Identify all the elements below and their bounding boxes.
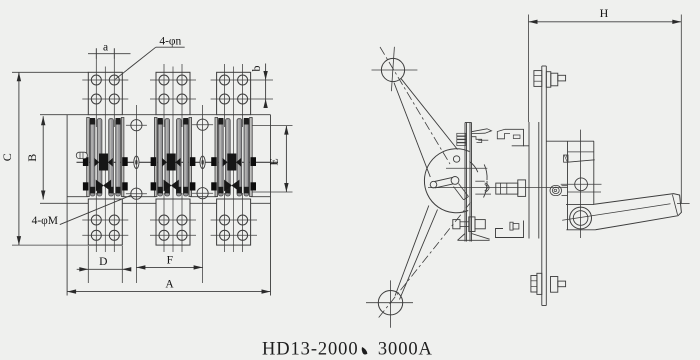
crank pin [430, 181, 437, 188]
lower angle bracket [496, 221, 524, 238]
pole 1 blade bottom feet [90, 187, 121, 194]
mounting hole centerline 2 [202, 105, 204, 283]
svg-text:3000A: 3000A [378, 340, 433, 360]
handle up side lines [394, 79, 458, 177]
latch tab on pole 1 [76, 152, 87, 158]
svg-text:HD13-2000: HD13-2000 [262, 340, 358, 360]
base top edge line [40, 114, 271, 116]
pole 3 blade bottom feet [218, 187, 249, 194]
mounting channel flanges [529, 122, 539, 239]
base lower rail line [40, 202, 271, 204]
pole 1 centerline [104, 67, 106, 253]
pole 1 blade side plates [87, 118, 124, 197]
pole 2 blade side plates [154, 118, 191, 197]
operating disc [424, 149, 487, 213]
handle grip up position circle [372, 47, 418, 91]
svg-text:H: H [600, 6, 609, 20]
pole 1 contact blades [90, 119, 120, 197]
disc center pivot [451, 177, 459, 185]
svg-text:4-φn: 4-φn [159, 36, 181, 48]
housing bracket [564, 152, 595, 162]
dimension b line [263, 64, 267, 109]
mounting hole 4-phiM #2 [192, 119, 213, 130]
lever pivot [570, 207, 592, 229]
svg-text:B: B [25, 154, 39, 162]
pole 1 side clamp blocks [83, 157, 128, 190]
svg-text:A: A [165, 279, 174, 291]
pole 2 blade bottom feet [158, 187, 189, 194]
pole 1 bottom clamp [96, 180, 111, 192]
dimension A line [67, 289, 270, 293]
mounting plate [542, 66, 547, 306]
svg-text:a: a [103, 42, 108, 54]
pole 3 blade side plates [215, 118, 252, 197]
pole 2 centerline [172, 67, 174, 253]
H extension anchor tick [677, 203, 690, 205]
dimension a line [88, 48, 131, 59]
handle up centerline [380, 47, 450, 164]
svg-text:E: E [266, 158, 280, 165]
top bolt assembly [534, 71, 566, 88]
pole 2 center hub [162, 154, 181, 171]
drive rod fork [475, 181, 491, 194]
upper angle bracket [497, 129, 529, 146]
svg-text:4-φM: 4-φM [32, 215, 58, 227]
svg-text:D: D [99, 256, 107, 268]
handle down side lines [395, 206, 437, 300]
dimension E line [252, 126, 293, 192]
spring stack on plate [457, 133, 466, 145]
upper pivot hole [561, 178, 602, 191]
crank lower arm [454, 184, 469, 200]
svg-text:F: F [167, 255, 173, 267]
label 4-phi-n with leader [115, 47, 185, 79]
pole 2 blade top caps [158, 118, 189, 125]
shaft bearing insulator 1 [134, 156, 139, 168]
bearing housing box [546, 130, 595, 238]
pole 1 center hub [94, 154, 113, 171]
upper horizontal centerline [446, 167, 487, 169]
shaft bearing insulator 2 [200, 156, 205, 168]
lever centerline [562, 204, 670, 221]
base bottom edge line [67, 196, 270, 198]
pole 1 bottom terminal pad [82, 193, 128, 252]
guide roller [550, 186, 562, 196]
frame left edge [66, 115, 68, 296]
roller links [562, 186, 568, 196]
drive rod centerline [428, 187, 568, 189]
pole 3 bottom clamp [224, 180, 239, 192]
mounting hole 4-phiM #1 [126, 120, 147, 131]
label 4-phi-M with leader [60, 195, 131, 224]
pole 1 top terminal pad [82, 49, 128, 128]
bottom bolt assembly [531, 273, 566, 294]
svg-text:C: C [0, 153, 14, 161]
pole 3 top terminal pad [211, 64, 273, 127]
pole 2 top terminal pad [150, 64, 196, 127]
handle down centerline [379, 203, 471, 318]
mounting hole 4-phiM #3 [126, 188, 147, 199]
dimension H line [529, 15, 682, 204]
dimension C line [12, 72, 123, 245]
pole 3 centerline [233, 67, 235, 253]
pole 2 side clamp blocks [151, 157, 196, 190]
dimension D line [77, 246, 132, 283]
housing mid line [568, 191, 602, 193]
pole frame plate [465, 123, 472, 242]
dimension B line [41, 116, 45, 199]
mounting hole centerline 1 [135, 105, 137, 283]
pole plate bolt [453, 217, 486, 232]
pole 3 center hub [223, 154, 242, 171]
pole 3 side clamp blocks [211, 157, 256, 190]
mounting hole 4-phiM #4 [192, 188, 213, 199]
pole 2 bottom clamp [164, 180, 179, 192]
handle grip down position circle [366, 280, 413, 327]
operating shaft [77, 161, 279, 163]
pole 1 blade top caps [90, 118, 121, 125]
lever handle bar [594, 194, 681, 230]
pole frame plate foot [458, 234, 490, 241]
disc top pin hole [453, 156, 459, 162]
frame right edge [270, 115, 272, 296]
pole 2 contact blades [158, 119, 188, 197]
crank arm [435, 177, 454, 188]
pole 2 bottom terminal pad [150, 193, 196, 252]
dimension F line [136, 265, 202, 269]
pole 3 blade top caps [218, 118, 249, 125]
svg-text:b: b [249, 66, 263, 72]
title HD13-2000 3000A [262, 340, 433, 360]
drive rod [496, 180, 526, 197]
pole 3 bottom terminal pad [211, 193, 257, 252]
pole 3 contact blades [219, 119, 249, 197]
upper contact bracket [472, 129, 492, 143]
